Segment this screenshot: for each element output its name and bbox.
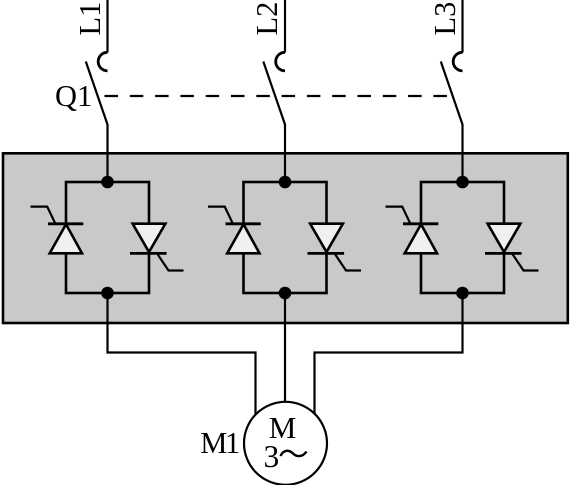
wire group 3 to motor xyxy=(315,293,463,415)
switch Q1 pole 3 blade xyxy=(441,62,463,125)
wire loop group 3 xyxy=(421,182,504,293)
wire group 1 to motor xyxy=(108,293,256,415)
svg-text:L3: L3 xyxy=(428,2,462,36)
wire group 2 to motor xyxy=(284,293,286,403)
wire loop group 1 xyxy=(66,182,149,293)
wire L3 feed xyxy=(461,0,463,53)
thyristor V5 (left, up-conducting) xyxy=(386,207,439,254)
switch Q1 pole 2 fixed contact xyxy=(276,52,285,71)
node bottom junction 2 xyxy=(279,287,292,300)
wire L1 feed xyxy=(106,0,108,53)
node top junction 2 xyxy=(279,176,292,189)
svg-text:M: M xyxy=(200,426,227,460)
thyristor V2 (right, down-conducting) xyxy=(130,224,184,271)
thyristor V6 (right, down-conducting) xyxy=(485,224,539,271)
node top junction 3 xyxy=(456,176,469,189)
svg-text:L1: L1 xyxy=(73,2,107,36)
svg-text:1: 1 xyxy=(225,426,240,460)
soft starter block (gray enclosure) xyxy=(3,153,568,323)
switch Q1 pole 1 fixed contact xyxy=(98,52,107,71)
switch Q1 pole 2 blade xyxy=(263,62,285,125)
motor M1 circle xyxy=(244,402,327,485)
switch Q1 pole 1 blade xyxy=(86,62,108,125)
tilde (AC symbol) xyxy=(281,451,307,456)
wire pole 3 to block xyxy=(461,124,463,182)
thyristor V1 (left, up-conducting) xyxy=(31,207,84,254)
svg-text:3: 3 xyxy=(264,439,280,474)
switch Q1 pole 3 fixed contact xyxy=(453,52,462,71)
wire loop group 2 xyxy=(244,182,327,293)
thyristor V3 (left, up-conducting) xyxy=(208,207,261,254)
svg-text:L2: L2 xyxy=(250,2,284,36)
wire L2 feed xyxy=(284,0,286,53)
node bottom junction 3 xyxy=(456,287,469,300)
node top junction 1 xyxy=(101,176,114,189)
thyristor V4 (right, down-conducting) xyxy=(308,224,362,271)
svg-text:Q1: Q1 xyxy=(55,79,92,113)
wire pole 2 to block xyxy=(284,124,286,182)
switch Q1 linkage (dashed) xyxy=(105,95,455,97)
wire pole 1 to block xyxy=(106,124,108,182)
node bottom junction 1 xyxy=(101,287,114,300)
